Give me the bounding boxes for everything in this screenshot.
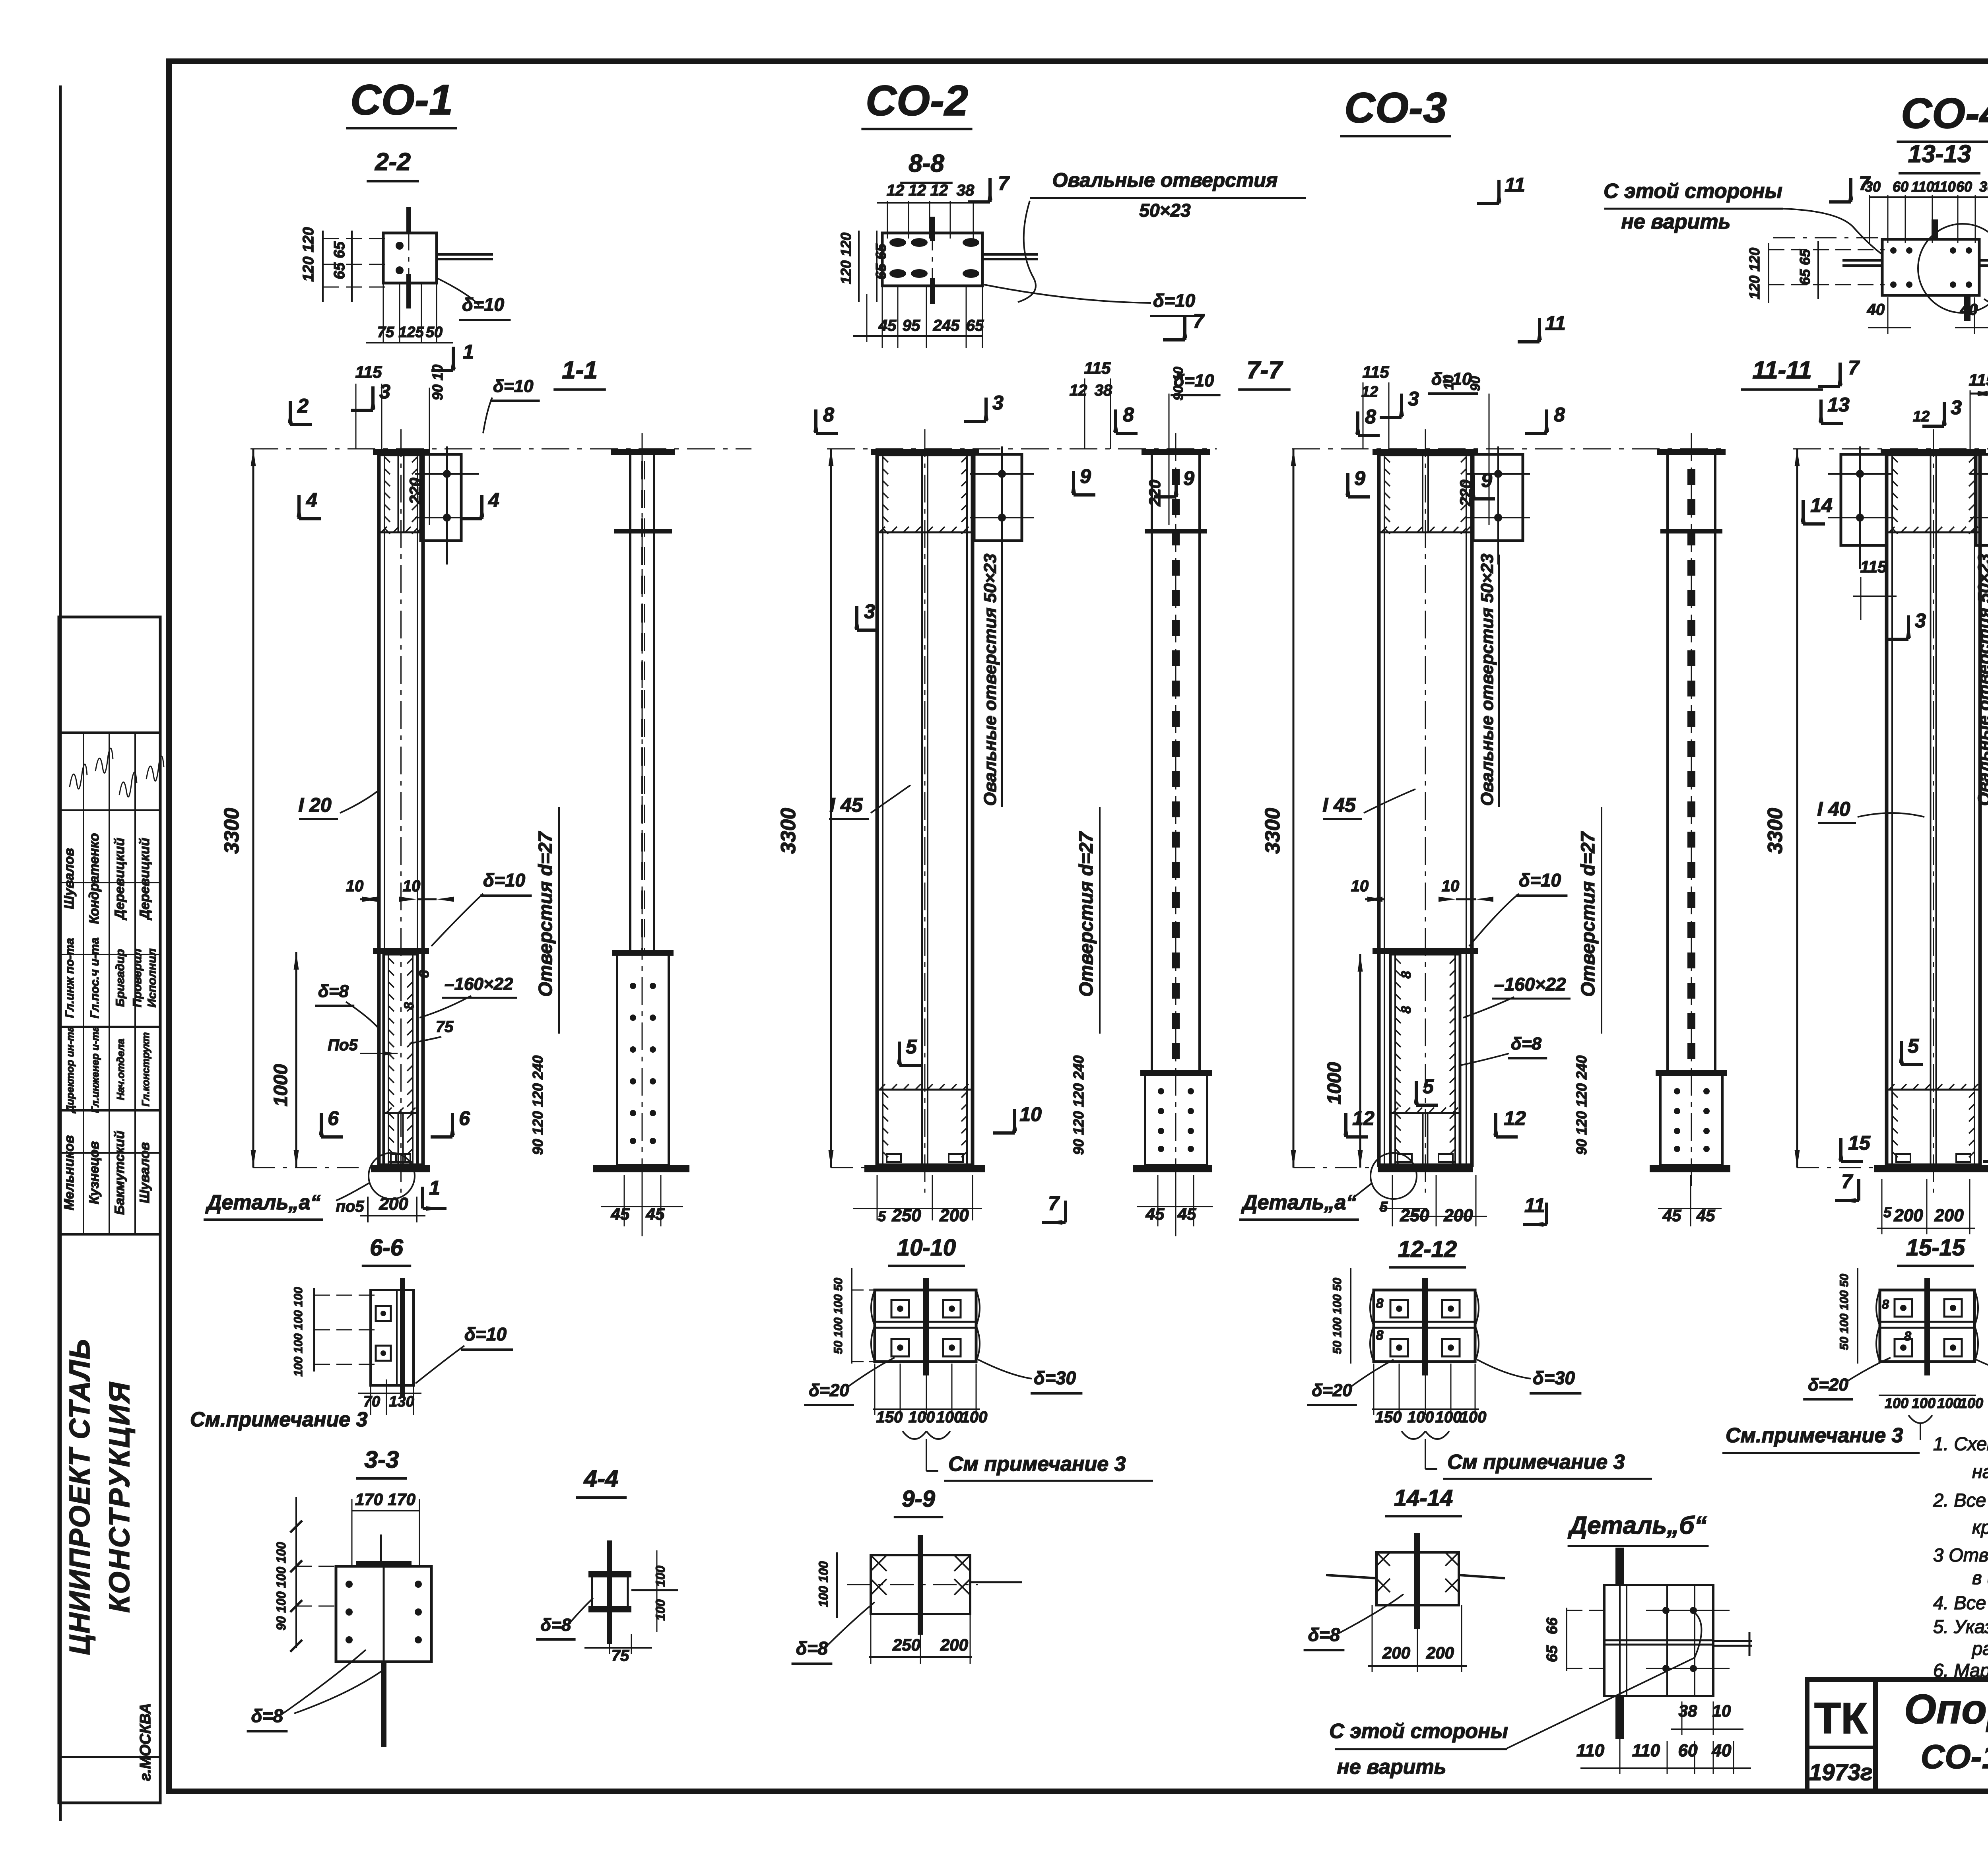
- svg-text:8: 8: [1376, 1296, 1384, 1311]
- svg-text:12: 12: [1352, 1107, 1375, 1129]
- svg-text:220: 220: [1146, 480, 1164, 507]
- svg-text:δ=20: δ=20: [1312, 1381, 1352, 1400]
- svg-text:δ=8: δ=8: [540, 1615, 571, 1635]
- svg-text:δ=10: δ=10: [462, 294, 505, 315]
- svg-text:110: 110: [1632, 1741, 1660, 1760]
- svg-text:Проверил: Проверил: [131, 949, 144, 1007]
- svg-text:120 120: 120 120: [838, 233, 854, 284]
- svg-text:9: 9: [1080, 465, 1091, 487]
- svg-text:8: 8: [1399, 971, 1414, 978]
- side view lower part: [617, 953, 669, 1165]
- svg-text:65 65: 65 65: [331, 241, 348, 279]
- dims under 1-1: [601, 1206, 683, 1207]
- svg-text:См.примечание 3: См.примечание 3: [1726, 1424, 1903, 1447]
- svg-text:Нач.отдела: Нач.отдела: [115, 1039, 126, 1100]
- svg-text:90 10: 90 10: [429, 365, 446, 400]
- svg-text:Отверстия d=27: Отверстия d=27: [1076, 831, 1097, 997]
- svg-text:100: 100: [1435, 1408, 1462, 1426]
- svg-text:8: 8: [402, 1002, 417, 1009]
- note ref under 15-15: [1908, 1415, 1932, 1423]
- column top bracket R: [1976, 454, 1988, 545]
- svg-text:I 45: I 45: [1322, 794, 1356, 816]
- svg-text:100: 100: [1912, 1395, 1936, 1411]
- svg-text:Бригадир: Бригадир: [114, 949, 127, 1007]
- svg-text:100: 100: [1460, 1408, 1487, 1426]
- column base plate: [1378, 1165, 1473, 1172]
- base dims CO-4: [1877, 1228, 1975, 1229]
- svg-text:115: 115: [1363, 363, 1390, 381]
- svg-text:δ=8: δ=8: [251, 1705, 283, 1726]
- svg-text:4: 4: [306, 489, 317, 511]
- svg-text:11: 11: [1545, 312, 1566, 334]
- svg-text:65 65: 65 65: [873, 243, 889, 279]
- column body: [877, 454, 973, 1165]
- column base plate: [371, 1165, 430, 1172]
- svg-text:–160×22: –160×22: [1494, 974, 1566, 995]
- svg-text:Овальные отверстия: Овальные отверстия: [1052, 169, 1278, 191]
- section 4-4 drawing: [607, 1540, 612, 1644]
- svg-text:12: 12: [930, 182, 948, 199]
- section 13-13 dims left: [1768, 243, 1769, 303]
- column base plate: [864, 1165, 985, 1172]
- side view web: [1151, 455, 1153, 1073]
- construction line top CO-1: [250, 448, 751, 450]
- svg-text:Гл.конструкт: Гл.конструкт: [140, 1032, 151, 1107]
- dim 3300 CO-2: [830, 449, 832, 1168]
- svg-text:12-12: 12-12: [1398, 1236, 1457, 1262]
- svg-text:10: 10: [1442, 877, 1460, 895]
- svg-text:г.МОСКВА: г.МОСКВА: [137, 1703, 154, 1781]
- svg-text:100: 100: [1937, 1395, 1961, 1411]
- svg-text:4: 4: [488, 489, 499, 511]
- svg-text:I 45: I 45: [829, 794, 863, 816]
- svg-text:1973г: 1973г: [1809, 1759, 1873, 1785]
- svg-text:10-10: 10-10: [897, 1235, 956, 1261]
- column body: [379, 454, 423, 1165]
- svg-text:100: 100: [653, 1599, 668, 1621]
- svg-text:100: 100: [1885, 1395, 1908, 1411]
- svg-text:45: 45: [1145, 1205, 1165, 1223]
- svg-text:30: 30: [1979, 178, 1988, 195]
- svg-text:δ=8: δ=8: [796, 1638, 828, 1659]
- svg-text:75: 75: [436, 1018, 454, 1036]
- stamp strip signature scribbles: [70, 764, 87, 789]
- svg-text:3: 3: [1915, 609, 1926, 632]
- svg-text:Гл.пос.ч и-та: Гл.пос.ч и-та: [88, 937, 101, 1018]
- svg-text:Отверстия d=27: Отверстия d=27: [1578, 831, 1599, 997]
- svg-text:7: 7: [1048, 1192, 1060, 1214]
- svg-text:1-1: 1-1: [562, 357, 598, 384]
- svg-text:–160×22: –160×22: [445, 974, 513, 994]
- side view top plate: [611, 449, 675, 455]
- svg-text:Директор ин-та: Директор ин-та: [64, 1026, 76, 1114]
- svg-text:200: 200: [1443, 1206, 1473, 1225]
- svg-text:Деревицкий: Деревицкий: [137, 838, 152, 920]
- side view mid plates: [614, 529, 672, 533]
- svg-text:90 120 120 240: 90 120 120 240: [530, 1055, 546, 1155]
- svg-text:Шувалов: Шувалов: [137, 1142, 152, 1203]
- svg-text:90 10: 90 10: [1171, 367, 1186, 400]
- svg-text:2: 2: [297, 395, 309, 417]
- svg-text:60: 60: [1956, 178, 1972, 195]
- svg-text:95: 95: [903, 317, 920, 334]
- svg-text:40: 40: [1712, 1741, 1732, 1760]
- svg-text:3: 3: [992, 392, 1004, 414]
- svg-text:7: 7: [998, 172, 1010, 194]
- section 12-12 drawing: [1374, 1290, 1475, 1362]
- svg-text:См примечание 3: См примечание 3: [1447, 1451, 1625, 1474]
- svg-text:5: 5: [878, 1208, 886, 1224]
- svg-text:66: 66: [1544, 1617, 1561, 1634]
- svg-text:120 120: 120 120: [1746, 248, 1763, 299]
- svg-text:50 100 100 50: 50 100 100 50: [1331, 1278, 1344, 1354]
- svg-text:См.примечание 3: См.примечание 3: [190, 1408, 368, 1431]
- svg-text:200: 200: [940, 1635, 968, 1654]
- column top plate: [871, 449, 979, 455]
- svg-text:7: 7: [1841, 1170, 1853, 1193]
- svg-text:δ=20: δ=20: [1808, 1375, 1848, 1395]
- section 12-12 dims: [1350, 1268, 1351, 1364]
- svg-text:СО-3: СО-3: [1344, 83, 1447, 132]
- detail b dims: [1566, 1608, 1567, 1671]
- cut marks above column CO-1: [452, 347, 455, 371]
- svg-text:60: 60: [1893, 178, 1908, 195]
- svg-text:С этой стороны: С этой стороны: [1329, 1720, 1508, 1743]
- svg-text:9: 9: [1481, 469, 1492, 491]
- cut marks above CO-3 column: [1356, 411, 1359, 435]
- svg-text:50×23: 50×23: [1139, 200, 1191, 221]
- dim 3300 CO-4: [1796, 449, 1798, 1168]
- svg-text:45: 45: [611, 1205, 630, 1223]
- section 14-14 drawing: [1376, 1552, 1459, 1605]
- column top plate: [373, 449, 429, 455]
- svg-text:5: 5: [1423, 1075, 1434, 1098]
- svg-text:5. Указания по назначению ти: 5. Указания по назначению типов электрод…: [1933, 1616, 1988, 1637]
- svg-text:10: 10: [1019, 1103, 1042, 1125]
- svg-text:Отверстия d=27: Отверстия d=27: [535, 831, 556, 997]
- svg-text:I 40: I 40: [1817, 798, 1850, 820]
- column top bracket R: [974, 454, 1022, 541]
- side view top plate: [1142, 449, 1210, 455]
- svg-text:100: 100: [1408, 1408, 1434, 1426]
- svg-text:8: 8: [1376, 1328, 1384, 1343]
- svg-text:8: 8: [1882, 1297, 1889, 1311]
- svg-text:250: 250: [891, 1206, 921, 1225]
- svg-text:11-11: 11-11: [1752, 357, 1811, 384]
- svg-text:8-8: 8-8: [909, 150, 944, 177]
- svg-text:150: 150: [1375, 1408, 1402, 1426]
- svg-text:65: 65: [1544, 1645, 1561, 1662]
- svg-text:δ=8: δ=8: [1308, 1624, 1340, 1645]
- svg-text:115: 115: [1969, 371, 1988, 389]
- svg-text:8: 8: [823, 403, 834, 426]
- svg-text:14: 14: [1810, 494, 1833, 516]
- left stamp strip outer box: [59, 617, 160, 1803]
- svg-text:200: 200: [1382, 1643, 1410, 1662]
- stamp strip table lines: [59, 731, 160, 734]
- svg-text:50 100 100 50: 50 100 100 50: [1838, 1274, 1851, 1350]
- side view base plate: [1650, 1165, 1730, 1172]
- side view mid plates: [1145, 529, 1207, 533]
- dims under 7-7: [1137, 1206, 1213, 1207]
- section 15-15 dims: [1857, 1268, 1858, 1364]
- svg-text:90 120 120 240: 90 120 120 240: [1070, 1055, 1087, 1155]
- section 2-2 plate: [383, 233, 437, 283]
- svg-text:δ=10: δ=10: [493, 376, 534, 396]
- svg-text:3: 3: [379, 380, 390, 403]
- dim 3300 CO-1: [252, 449, 254, 1168]
- base detail callout CO-3: [1371, 1153, 1417, 1199]
- cut mark 14 CO-4: [1802, 500, 1805, 524]
- detail b top bar: [1615, 1548, 1624, 1585]
- base dims CO-2: [853, 1208, 982, 1209]
- svg-text:δ=8: δ=8: [1511, 1034, 1542, 1053]
- svg-text:СО-4: СО-4: [1901, 89, 1988, 137]
- svg-text:по5: по5: [336, 1198, 364, 1215]
- dims under side view CO-3: [1658, 1208, 1722, 1209]
- svg-text:Исполнил: Исполнил: [146, 948, 159, 1007]
- svg-text:3300: 3300: [1764, 808, 1787, 854]
- svg-text:1: 1: [429, 1177, 440, 1199]
- svg-text:8: 8: [1904, 1329, 1911, 1343]
- svg-text:не варить: не варить: [1337, 1756, 1446, 1779]
- svg-text:7-7: 7-7: [1246, 357, 1283, 384]
- svg-text:200: 200: [939, 1206, 969, 1225]
- svg-text:9: 9: [1354, 467, 1365, 489]
- side view web: [1666, 455, 1669, 1073]
- svg-text:ТК: ТК: [1814, 1694, 1868, 1743]
- TK box: [1807, 1680, 1875, 1791]
- column lower section: [1390, 954, 1460, 1165]
- svg-text:170: 170: [388, 1490, 415, 1509]
- column top plate: [1881, 449, 1986, 455]
- svg-text:С этой стороны: С этой стороны: [1604, 180, 1782, 203]
- svg-text:3: 3: [1408, 388, 1419, 410]
- svg-text:8: 8: [1554, 403, 1565, 426]
- svg-text:не варить: не варить: [1621, 210, 1730, 233]
- svg-text:5: 5: [1380, 1199, 1388, 1215]
- column base plate: [1874, 1165, 1988, 1172]
- section 8-8 plate: [882, 233, 982, 286]
- column top bracket R: [1473, 454, 1523, 541]
- svg-text:δ=10: δ=10: [483, 870, 526, 890]
- svg-text:3-3: 3-3: [365, 1446, 399, 1473]
- svg-text:100 100: 100 100: [816, 1561, 831, 1607]
- note ref under 10-10: [903, 1431, 950, 1439]
- svg-text:I 20: I 20: [298, 794, 332, 816]
- svg-text:45: 45: [1662, 1206, 1681, 1225]
- svg-text:на листе 44.: на листе 44.: [1972, 1461, 1988, 1482]
- column top bracket L: [1841, 454, 1886, 545]
- construction line top CO-3: [1292, 448, 1722, 450]
- svg-text:50: 50: [426, 324, 443, 341]
- svg-text:120 120: 120 120: [300, 227, 317, 281]
- svg-text:Деталь„а“: Деталь„а“: [1241, 1191, 1356, 1214]
- svg-text:δ=10: δ=10: [1519, 870, 1561, 890]
- svg-text:170: 170: [355, 1490, 383, 1509]
- section 8-8 dims above: [877, 202, 974, 204]
- detail b bolts: [1662, 1607, 1670, 1614]
- svg-text:4. Все сварные швы h=6, кра: 4. Все сварные швы h=6, краме оговоренны…: [1933, 1592, 1988, 1613]
- svg-text:ЦНИИПРОЕКТ СТАЛЬ: ЦНИИПРОЕКТ СТАЛЬ: [64, 1339, 96, 1655]
- section 10-10 drawing: [875, 1290, 976, 1362]
- svg-text:Овальные отверстия 50×23: Овальные отверстия 50×23: [1477, 554, 1497, 806]
- dim 3300 CO-3: [1293, 449, 1295, 1168]
- svg-text:Гл.инж по-та: Гл.инж по-та: [63, 938, 76, 1018]
- svg-text:13: 13: [1827, 394, 1850, 416]
- svg-text:10: 10: [1351, 877, 1369, 895]
- svg-text:50 100 100 50: 50 100 100 50: [832, 1278, 845, 1354]
- svg-text:15: 15: [1848, 1132, 1871, 1154]
- svg-text:1000: 1000: [1324, 1062, 1345, 1104]
- side view bolt hole column (dashes): [1687, 469, 1695, 485]
- svg-text:12: 12: [909, 182, 926, 199]
- column top plate: [1373, 449, 1478, 455]
- svg-text:в шайбах d=23 под болты но: в шайбах d=23 под болты нормальной точно…: [1972, 1567, 1988, 1588]
- section 2-2 dim lines: [322, 231, 324, 302]
- svg-text:130: 130: [389, 1393, 414, 1410]
- svg-text:38: 38: [957, 182, 975, 199]
- svg-text:8: 8: [417, 970, 432, 978]
- svg-text:100: 100: [909, 1408, 935, 1426]
- svg-text:3 Отверстия в опорных плит: 3 Отверстия в опорных плитах стоек d=50,…: [1933, 1544, 1988, 1565]
- svg-text:10: 10: [403, 877, 421, 895]
- svg-text:Бакмутский: Бакмутский: [112, 1131, 127, 1215]
- note ref under 12-12: [1402, 1431, 1449, 1439]
- svg-text:200: 200: [1426, 1643, 1454, 1662]
- side view base plate: [1133, 1165, 1212, 1172]
- svg-text:90: 90: [1468, 376, 1483, 391]
- column top bracket R: [421, 454, 461, 541]
- svg-text:δ=8: δ=8: [318, 982, 349, 1001]
- svg-text:См примечание 3: См примечание 3: [948, 1453, 1126, 1476]
- svg-text:110: 110: [1576, 1741, 1605, 1760]
- svg-text:45: 45: [1696, 1206, 1715, 1225]
- svg-text:Опорные стойки: Опорные стойки: [1904, 1686, 1988, 1732]
- lower labels CO-4: [1900, 1041, 1903, 1065]
- dim 1000 CO-3: [1359, 954, 1361, 1168]
- svg-text:13-13: 13-13: [1908, 140, 1971, 168]
- svg-text:100 100 100 100: 100 100 100 100: [292, 1287, 305, 1377]
- svg-text:100: 100: [653, 1565, 668, 1587]
- section 10-10 dims: [851, 1268, 852, 1364]
- svg-text:разделе VI пояснительной зап: разделе VI пояснительной записки.: [1971, 1638, 1988, 1659]
- svg-text:75: 75: [377, 324, 394, 341]
- section 6-6 drawing: [371, 1290, 414, 1385]
- side view mid plates: [1660, 529, 1722, 533]
- svg-text:7: 7: [1859, 172, 1871, 194]
- svg-text:Мельников: Мельников: [62, 1135, 77, 1210]
- svg-text:100: 100: [936, 1408, 963, 1426]
- svg-text:7: 7: [1848, 357, 1860, 379]
- svg-text:45: 45: [878, 317, 897, 334]
- svg-text:12: 12: [1361, 384, 1378, 400]
- svg-text:По5: По5: [328, 1036, 358, 1054]
- svg-text:Овальные отверстия 50×23: Овальные отверстия 50×23: [980, 554, 1000, 806]
- svg-text:8: 8: [1399, 1006, 1414, 1013]
- side view web: [629, 455, 631, 953]
- section 13-13 drawing: [1773, 237, 1885, 239]
- svg-text:200: 200: [379, 1194, 408, 1214]
- svg-text:Деталь„а“: Деталь„а“: [205, 1191, 320, 1214]
- svg-text:2. Все отверстия d=23 под бол: 2. Все отверстия d=23 под болты нормальн…: [1933, 1490, 1988, 1511]
- svg-text:Шувалов: Шувалов: [62, 848, 77, 909]
- svg-text:3300: 3300: [777, 808, 800, 854]
- svg-text:КОНСТРУКЦИЯ: КОНСТРУКЦИЯ: [104, 1381, 136, 1613]
- svg-text:δ=10: δ=10: [1153, 290, 1196, 311]
- svg-text:12: 12: [1070, 382, 1087, 399]
- svg-text:Деталь„б“: Деталь„б“: [1567, 1512, 1706, 1539]
- svg-text:250: 250: [1400, 1206, 1429, 1225]
- svg-text:9: 9: [1183, 467, 1194, 489]
- svg-text:СО-2: СО-2: [866, 76, 968, 124]
- svg-text:Овальные отверстия 50×23: Овальные отверстия 50×23: [1974, 554, 1988, 806]
- svg-text:250: 250: [892, 1635, 920, 1654]
- svg-text:38: 38: [1095, 382, 1112, 399]
- section 3-3 drawing: [352, 1510, 419, 1511]
- svg-text:Деревицкий: Деревицкий: [112, 838, 127, 920]
- svg-text:14-14: 14-14: [1394, 1485, 1453, 1511]
- construction line top CO-4: [1793, 448, 1988, 450]
- section 9-9 drawing: [871, 1555, 970, 1614]
- svg-text:200: 200: [1893, 1206, 1923, 1225]
- svg-text:8: 8: [1123, 403, 1134, 426]
- svg-text:3: 3: [864, 600, 875, 623]
- svg-text:11: 11: [1505, 174, 1525, 196]
- svg-text:100: 100: [1959, 1395, 1983, 1411]
- svg-text:6: 6: [328, 1107, 339, 1129]
- svg-text:150: 150: [876, 1408, 903, 1426]
- svg-text:40: 40: [1867, 301, 1885, 318]
- side view bolt hole column (dashes): [1172, 469, 1180, 485]
- svg-text:7: 7: [1193, 310, 1205, 332]
- svg-text:5: 5: [1883, 1204, 1892, 1220]
- svg-text:3300: 3300: [1261, 808, 1284, 854]
- detail b bottom bar: [1615, 1696, 1624, 1739]
- section 8-8 dims below and left: [858, 231, 860, 302]
- base detail callout CO-1: [369, 1153, 415, 1199]
- svg-text:3: 3: [1951, 396, 1962, 419]
- svg-text:10: 10: [1712, 1701, 1731, 1720]
- svg-text:кроме оговоренных: кроме оговоренных: [1972, 1517, 1988, 1538]
- svg-text:45: 45: [646, 1205, 665, 1223]
- section 13-13 dims above: [1870, 196, 1988, 198]
- sheet left edge line: [59, 85, 62, 1821]
- svg-text:10: 10: [346, 877, 364, 895]
- svg-text:3300: 3300: [220, 808, 243, 854]
- svg-text:9-9: 9-9: [902, 1486, 935, 1512]
- svg-text:δ=20: δ=20: [809, 1381, 849, 1400]
- detail b rod right: [1713, 1640, 1752, 1642]
- column body: [1379, 454, 1472, 1165]
- cut marks above CO-4 column: [1849, 178, 1852, 202]
- section 15-15 drawing: [1880, 1290, 1974, 1362]
- svg-text:δ=30: δ=30: [1533, 1368, 1575, 1388]
- column body: [1887, 454, 1980, 1165]
- svg-text:115: 115: [355, 363, 382, 381]
- svg-text:10: 10: [1441, 375, 1456, 390]
- svg-text:12: 12: [1504, 1107, 1526, 1129]
- svg-text:245: 245: [933, 317, 960, 334]
- svg-text:115: 115: [1084, 359, 1111, 377]
- svg-text:70: 70: [363, 1393, 380, 1410]
- svg-text:5: 5: [906, 1036, 917, 1058]
- svg-text:δ=10: δ=10: [464, 1324, 507, 1344]
- svg-text:δ=30: δ=30: [1034, 1368, 1076, 1388]
- side view lower part: [1660, 1073, 1722, 1165]
- svg-text:11: 11: [1524, 1194, 1545, 1216]
- svg-text:6: 6: [459, 1107, 470, 1129]
